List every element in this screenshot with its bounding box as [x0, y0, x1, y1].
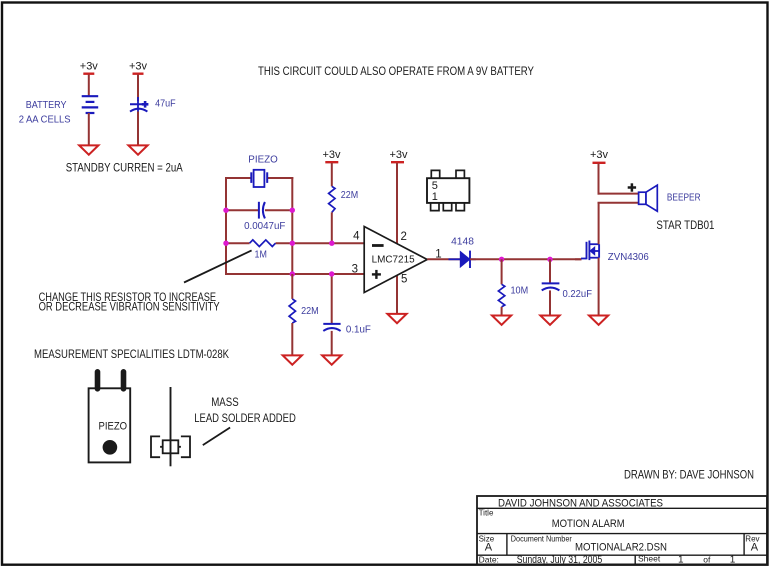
wire piezo row left — [225, 177, 251, 179]
mass vertical film strip — [170, 387, 172, 466]
wire 22M top — [331, 163, 333, 186]
svg-text:1: 1 — [678, 554, 684, 565]
piezo sensor dot — [103, 440, 118, 455]
power +3v bar (op-amp) — [391, 161, 404, 163]
mass lead horizontal — [151, 446, 190, 448]
svg-text:THIS CIRCUIT COULD ALSO OPERAT: THIS CIRCUIT COULD ALSO OPERATE FROM A 9… — [258, 64, 534, 78]
wire 0.22uF top — [549, 259, 551, 283]
svg-text:+3v: +3v — [129, 61, 148, 73]
svg-text:BATTERY: BATTERY — [26, 100, 67, 111]
svg-text:Date:: Date: — [479, 554, 499, 564]
svg-text:2 AA CELLS: 2 AA CELLS — [19, 114, 71, 125]
wire op-amp V+ (pin 2) — [396, 163, 398, 244]
wire 47uF top — [137, 75, 139, 102]
junction left/1M row — [223, 241, 228, 246]
svg-text:+3v: +3v — [322, 149, 341, 161]
svg-text:PIEZO: PIEZO — [248, 154, 277, 166]
diode D1 leads — [449, 258, 461, 260]
svg-text:A: A — [485, 542, 493, 554]
transistor Q1 ZVN4306 — [581, 241, 599, 261]
svg-text:OR DECREASE VIBRATION SENSITIV: OR DECREASE VIBRATION SENSITIVITY — [39, 299, 220, 313]
wire battery bottom — [88, 113, 90, 145]
svg-text:+3v: +3v — [80, 61, 99, 73]
pointer line to 1M — [184, 250, 252, 282]
svg-text:MOTION ALARM: MOTION ALARM — [552, 518, 625, 530]
svg-text:2: 2 — [401, 231, 407, 243]
svg-text:4148: 4148 — [451, 236, 474, 248]
svg-text:22M: 22M — [301, 305, 319, 317]
op-amp U1 LMC7215 triangle — [364, 227, 427, 293]
mass solder left cap — [151, 436, 160, 457]
junction right/1M row — [290, 241, 295, 246]
svg-text:3: 3 — [352, 264, 358, 276]
piezo element X1 (crystal symbol) — [251, 170, 267, 187]
speaker LS1 beeper — [639, 192, 646, 204]
power +3v bar (beeper) — [593, 162, 606, 164]
wire gate lead red part — [575, 258, 582, 260]
wire piezo row right — [267, 177, 293, 179]
ground (47uF) — [128, 145, 147, 154]
svg-text:of: of — [703, 554, 711, 564]
junction dot 0.22uF — [547, 257, 552, 262]
title block outer — [477, 496, 767, 565]
power +3v bar (47uF) — [133, 72, 144, 74]
resistor R1 1M — [250, 240, 276, 247]
svg-text:MEASUREMENT SPECIALITIES LDTM-: MEASUREMENT SPECIALITIES LDTM-028K — [34, 347, 229, 361]
wire pin3 row — [226, 273, 364, 275]
ground (source) — [589, 316, 608, 325]
title block h-line 3 — [477, 554, 767, 556]
junction right/pin3 row — [290, 271, 295, 276]
wire 22M bottom — [331, 212, 333, 243]
wire cap row — [226, 209, 258, 211]
wire 22M lower top — [291, 274, 293, 299]
wire 47uF bottom — [137, 112, 139, 146]
power +3v bar (22M) — [325, 161, 338, 163]
svg-text:DRAWN BY: DAVE JOHNSON: DRAWN BY: DAVE JOHNSON — [624, 468, 754, 482]
svg-text:BEEPER: BEEPER — [667, 192, 701, 204]
power +3v bar (battery) — [83, 72, 94, 74]
package body — [427, 178, 469, 203]
junction dot 10M — [499, 257, 504, 262]
wire drain up — [598, 203, 600, 244]
capacitor C1 47uF polarized — [130, 97, 148, 112]
ground (op-amp) — [387, 314, 406, 323]
piezo sensor body — [89, 388, 131, 462]
svg-text:Sunday, July 31, 2005: Sunday, July 31, 2005 — [517, 554, 603, 566]
resistor R3 22M — [289, 299, 295, 323]
svg-text:ZVN4306: ZVN4306 — [608, 252, 649, 263]
title block h-line 2 — [477, 533, 767, 535]
svg-text:LEAD SOLDER ADDED: LEAD SOLDER ADDED — [194, 411, 296, 425]
junction dot 0.1uF/pin3 — [329, 271, 334, 276]
svg-text:STANDBY CURREN = 2uA: STANDBY CURREN = 2uA — [66, 161, 183, 175]
svg-text:0.22uF: 0.22uF — [563, 288, 593, 300]
svg-text:MASS: MASS — [211, 395, 239, 409]
title block v-line size — [506, 534, 508, 556]
svg-text:LMC7215: LMC7215 — [372, 255, 415, 266]
wire loop right vertical — [291, 177, 293, 275]
svg-text:1M: 1M — [255, 249, 267, 261]
svg-text:0.0047uF: 0.0047uF — [244, 220, 285, 232]
svg-text:Sheet: Sheet — [638, 554, 661, 564]
junction left/cap row — [223, 208, 228, 213]
svg-text:47uF: 47uF — [155, 97, 176, 109]
svg-text:MOTIONALAR2.DSN: MOTIONALAR2.DSN — [575, 542, 667, 554]
svg-text:Document Number: Document Number — [511, 535, 572, 544]
wire 0.1uF bottom — [331, 331, 333, 356]
wire beeper bottom lead — [598, 202, 639, 204]
svg-text:1: 1 — [432, 191, 438, 203]
ground (0.22uF) — [540, 316, 559, 325]
package bottom pin tabs — [431, 203, 439, 211]
battery BT1 2 AA cells — [82, 96, 99, 113]
svg-text:5: 5 — [401, 274, 407, 286]
svg-text:DAVID JOHNSON AND ASSOCIATES: DAVID JOHNSON AND ASSOCIATES — [498, 498, 663, 510]
wire op-amp V- (pin 5) — [396, 275, 398, 314]
capacitor C2 0.0047uF — [259, 202, 265, 219]
wire 0.22uF bottom — [549, 290, 551, 315]
wire op-amp output — [427, 258, 460, 260]
wire 0.1uF top — [331, 274, 333, 324]
junction dot 22M/pin4 — [329, 241, 334, 246]
wire source down — [598, 258, 600, 316]
wire 10M top — [501, 259, 503, 284]
wire 10M bottom — [501, 307, 503, 316]
title block h-line 1 — [477, 507, 767, 509]
diode D1 4148 — [460, 252, 470, 268]
package top pin tabs — [431, 170, 439, 178]
svg-text:Title: Title — [479, 509, 494, 518]
svg-text:22M: 22M — [341, 189, 358, 201]
resistor R4 10M — [498, 284, 504, 307]
svg-text:A: A — [751, 542, 759, 554]
capacitor C3 0.1uF — [323, 324, 340, 331]
svg-text:STAR TDB01: STAR TDB01 — [656, 218, 714, 232]
svg-text:1: 1 — [730, 554, 736, 565]
svg-text:+3v: +3v — [389, 149, 408, 161]
svg-text:+3v: +3v — [590, 149, 609, 161]
wire beeper +3v down — [598, 164, 600, 195]
wire pin4 row — [226, 242, 250, 244]
wire battery top — [88, 75, 90, 97]
ground (battery) — [79, 145, 98, 154]
pointer line to solder — [203, 428, 230, 446]
ground (22M lower) — [283, 355, 302, 364]
svg-text:PIEZO: PIEZO — [99, 421, 128, 433]
svg-text:0.1uF: 0.1uF — [346, 323, 371, 335]
resistor R2 22M — [329, 186, 335, 212]
ground (0.1uF) — [322, 355, 341, 364]
plus sign (beeper polarity) — [628, 186, 636, 189]
piezo sensor leg right — [121, 372, 127, 389]
wire beeper top lead — [598, 193, 639, 195]
junction right/cap row — [290, 208, 295, 213]
mass solder center block — [163, 440, 179, 453]
op-amp minus sign — [372, 244, 384, 247]
title block v-line sheet — [634, 555, 636, 564]
mass solder right cap — [181, 436, 190, 457]
wire 22M lower bottom — [291, 323, 293, 355]
wire loop left vertical — [225, 177, 227, 275]
piezo sensor leg left — [95, 372, 101, 389]
title block v-line rev — [743, 534, 745, 556]
svg-text:5: 5 — [432, 180, 438, 192]
svg-text:4: 4 — [353, 231, 360, 243]
op-amp plus sign — [372, 273, 381, 275]
wire output row to gate — [470, 258, 582, 260]
ground (10M) — [492, 316, 511, 325]
capacitor C4 0.22uF — [542, 283, 560, 290]
svg-text:10M: 10M — [511, 285, 529, 297]
